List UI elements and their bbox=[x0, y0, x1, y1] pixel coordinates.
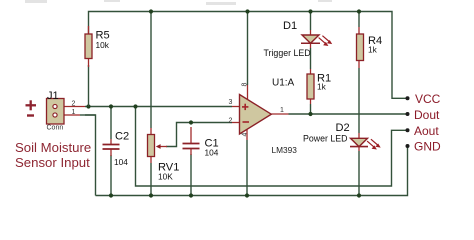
wire output row to Dout bbox=[289, 113, 408, 115]
resistor R4 bbox=[357, 27, 383, 68]
wire C2 column bbox=[110, 107, 112, 140]
svg-text:C2: C2 bbox=[115, 131, 129, 143]
svg-text:LM393: LM393 bbox=[272, 145, 298, 155]
wire R5 bottom lead bbox=[88, 65, 90, 107]
wire C1 bottom lead bbox=[190, 154, 192, 196]
svg-text:Conn: Conn bbox=[47, 125, 64, 132]
svg-text:10k: 10k bbox=[96, 40, 110, 50]
svg-text:104: 104 bbox=[205, 148, 219, 158]
junction top rail D1 bbox=[308, 9, 312, 13]
svg-text:3: 3 bbox=[229, 99, 233, 106]
resistor R5 bbox=[85, 26, 110, 67]
wire R4 top lead bbox=[358, 12, 360, 28]
wire RV1 top lead from VCC rail bbox=[150, 12, 152, 129]
svg-text:D1: D1 bbox=[283, 20, 297, 32]
svg-text:8: 8 bbox=[242, 83, 249, 87]
LED D2 bbox=[303, 122, 381, 151]
svg-text:Sensor Input: Sensor Input bbox=[15, 155, 90, 170]
wire D2 cathode to ground rail bbox=[358, 151, 360, 196]
svg-text:Dout: Dout bbox=[414, 108, 440, 122]
junction node row R5 bbox=[86, 104, 90, 108]
resistor R1 bbox=[307, 69, 331, 104]
wire RV1 bottom lead to ground rail bbox=[150, 163, 152, 196]
svg-text:1: 1 bbox=[72, 109, 76, 116]
wire D1 anode from rail bbox=[310, 12, 312, 31]
svg-text:4: 4 bbox=[242, 133, 249, 137]
op-amp U1:A LM393 bbox=[229, 78, 298, 156]
terminal GND bbox=[406, 144, 410, 148]
junction node row Aout bbox=[133, 104, 137, 108]
svg-text:104: 104 bbox=[114, 157, 128, 167]
svg-text:1k: 1k bbox=[368, 45, 378, 55]
junction top rail pin8 bbox=[245, 9, 249, 13]
junction pin2 row C1 bbox=[189, 120, 193, 124]
faint cropped-text artifacts at top bbox=[25, 0, 332, 5]
wire Aout net: node row down and across to Aout terminal bbox=[136, 107, 408, 187]
svg-text:D2: D2 bbox=[336, 122, 350, 134]
svg-text:Aout: Aout bbox=[414, 124, 439, 138]
LED D1 bbox=[264, 20, 333, 58]
junction ground rail C2 bbox=[109, 193, 113, 197]
wire J1 pin2 to op-amp pin3 row bbox=[85, 106, 232, 108]
svg-text:J1: J1 bbox=[47, 90, 59, 102]
minus terminal mark bbox=[27, 114, 34, 116]
svg-text:VCC: VCC bbox=[415, 92, 441, 106]
wire op-amp pin4 to ground rail bbox=[246, 140, 248, 196]
svg-text:Power LED: Power LED bbox=[303, 134, 348, 144]
svg-text:GND: GND bbox=[414, 140, 441, 154]
plus terminal mark bbox=[26, 100, 37, 110]
svg-text:2: 2 bbox=[72, 101, 76, 108]
svg-text:2: 2 bbox=[229, 118, 233, 125]
wire RV1 wiper to op-amp pin2 row bbox=[166, 123, 232, 147]
terminal VCC bbox=[406, 96, 410, 100]
wire op-amp pin8 from VCC rail bbox=[247, 12, 249, 86]
terminal Dout bbox=[406, 112, 410, 116]
junction ground rail RV1 bbox=[149, 193, 153, 197]
junction ground rail C1 bbox=[189, 193, 193, 197]
wire R4 bottom to D2 anode bbox=[358, 68, 360, 133]
svg-text:Trigger LED: Trigger LED bbox=[264, 48, 311, 58]
junction ground rail D2 bbox=[357, 193, 361, 197]
wire top rail VCC bbox=[89, 12, 408, 99]
wire D1 cathode to R1 bbox=[310, 48, 312, 69]
svg-text:1: 1 bbox=[280, 107, 284, 114]
terminal Aout bbox=[406, 128, 410, 132]
wire J1 pin1 down to ground rail bbox=[85, 115, 96, 196]
svg-text:U1:A: U1:A bbox=[272, 78, 295, 89]
junction output row R1 bbox=[308, 112, 312, 116]
wire R1 bottom to output row bbox=[310, 104, 312, 114]
connector J1 bbox=[47, 90, 96, 132]
junction top rail RV1 bbox=[149, 9, 153, 13]
potentiometer RV1 bbox=[148, 128, 180, 182]
svg-text:Soil Moisture: Soil Moisture bbox=[15, 140, 91, 155]
capacitor C2 bbox=[103, 131, 130, 168]
svg-text:1k: 1k bbox=[317, 82, 327, 92]
junction top rail R4 bbox=[357, 9, 361, 13]
svg-text:10K: 10K bbox=[158, 172, 173, 182]
wire ground rail bbox=[96, 146, 408, 196]
capacitor C1 bbox=[183, 127, 219, 158]
junction node row C2 bbox=[109, 104, 113, 108]
junction ground rail pin4 bbox=[245, 193, 249, 197]
